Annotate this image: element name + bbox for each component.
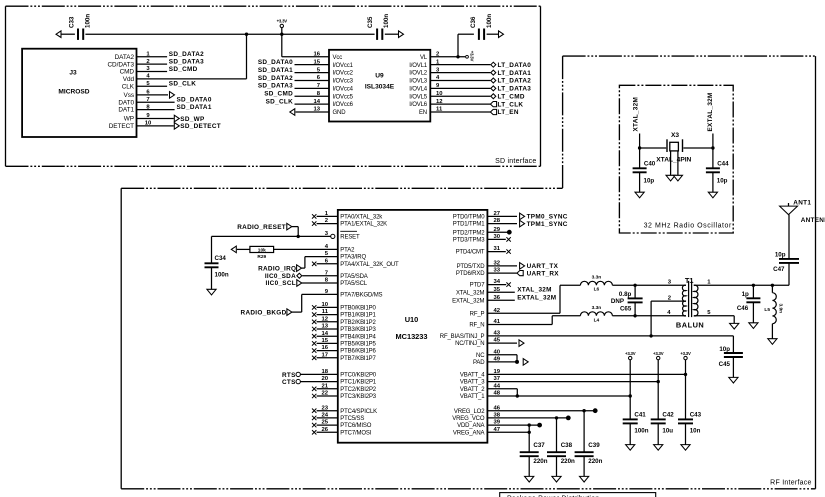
wire pin34 stub [487,284,506,286]
wire U9 LT_DATA0 [430,64,490,66]
svg-text:I/OVL2: I/OVL2 [409,71,428,77]
power symbol +3.3V (C41) [625,351,636,360]
ground below C43 [681,445,690,451]
svg-text:VBATT_2: VBATT_2 [460,387,485,393]
arrow NC/TINJ_N [519,340,524,347]
net label SD_CMD (U9 side) [264,91,293,98]
no-connect X pin30 [506,237,510,241]
svg-text:220n: 220n [533,458,547,465]
svg-text:VREG_ANA: VREG_ANA [453,430,485,436]
junction crystal right [711,146,714,149]
svg-text:SD_WP: SD_WP [180,116,205,123]
svg-text:XTAL_32M: XTAL_32M [456,290,485,296]
wire RADIO_RESET to RESET [292,227,298,237]
no-connect X pin 14 [312,334,316,338]
junction L5 [771,284,774,287]
net label SD_DATA1 (U9 side) [258,67,293,74]
net label SD_DATA2 [169,51,204,58]
svg-text:C44: C44 [717,161,729,168]
net label SD_DETECT [174,123,221,131]
svg-text:MC13233: MC13233 [395,332,427,341]
svg-text:L4: L4 [594,317,600,323]
svg-text:VBATT_1: VBATT_1 [460,394,485,400]
left arrow on +3.3V rail [56,31,61,38]
capacitor C38 220n [547,418,575,477]
ground below L5 [768,339,777,345]
svg-text:DAT1: DAT1 [118,107,134,114]
ground crystal right [673,175,682,181]
svg-text:SD_DATA2: SD_DATA2 [258,75,293,82]
wire RF_N [487,316,580,325]
svg-text:+3.3V: +3.3V [470,51,475,62]
svg-text:PTC2/KBI2P2: PTC2/KBI2P2 [340,387,377,393]
wire J3 pin 3 [137,71,168,73]
capacitor C37 220n [520,425,548,476]
net label LT_EN [490,109,518,116]
svg-text:+3.3V: +3.3V [653,351,664,356]
svg-text:SD_DATA0: SD_DATA0 [258,59,293,66]
svg-text:CLK: CLK [122,83,135,90]
junction C43 [684,373,687,376]
svg-text:I/OVcc2: I/OVcc2 [333,71,354,77]
svg-text:C46: C46 [737,305,749,312]
svg-text:C35: C35 [367,16,374,28]
svg-text:PTC0/KBI2P0: PTC0/KBI2P0 [340,373,377,379]
wire EXTAL_32M stub [683,134,713,149]
no-connect X pin 10 [312,305,316,309]
wire pin30 stub [487,238,505,240]
svg-text:TPM1_SYNC: TPM1_SYNC [527,221,568,228]
no-connect X pin 17 [312,356,316,360]
svg-text:C41: C41 [634,412,646,419]
resistor R29 10k [250,246,274,260]
net label LT_DATA0 [491,62,531,69]
svg-text:RESET: RESET [340,235,360,241]
svg-text:PTA7/BKGD/MS: PTA7/BKGD/MS [340,293,382,299]
no-connect X pin 15 [312,341,316,345]
svg-text:100n: 100n [383,14,390,28]
svg-text:+3.3V: +3.3V [625,351,636,356]
svg-text:PTA3/IRQ: PTA3/IRQ [340,255,366,261]
svg-text:PTB1/KBI1P1: PTB1/KBI1P1 [340,313,376,319]
svg-text:VL: VL [420,55,428,61]
junction C65 top [633,284,636,287]
net label SD_DATA3 [169,59,204,66]
wire U9 LT_CMD [430,95,490,97]
svg-text:I/OVL1: I/OVL1 [409,63,428,69]
svg-text:PTD7: PTD7 [470,283,486,289]
inductor L6 3.3n [580,275,612,293]
junction VREG_ANA at C37 [528,431,531,434]
wire U10 pin 11 (n.c.) [317,314,338,316]
net label TPM1_SYNC [520,220,568,228]
net label UART_RX [517,270,559,277]
wire J3 pin 4 [137,78,247,80]
svg-text:ISL3034E: ISL3034E [365,84,395,91]
svg-text:RADIO_RESET: RADIO_RESET [237,224,286,231]
svg-text:LT_CLK: LT_CLK [498,101,524,108]
svg-text:RF_P: RF_P [470,311,485,317]
svg-text:UART_RX: UART_RX [527,270,560,277]
svg-text:LT_DATA2: LT_DATA2 [498,78,532,85]
no-connect X pin 6 [312,262,316,266]
svg-text:SD_DATA3: SD_DATA3 [169,59,204,66]
net label RADIO_IRQ [258,265,302,273]
wire J3 pin 5 [137,85,168,87]
32 MHz Radio Oscillator boundary box [619,85,733,233]
wire U10 pin 16 (n.c.) [317,350,338,352]
wire U10 pin 26 (n.c.) [317,431,338,433]
svg-text:PTB3/KBI1P3: PTB3/KBI1P3 [340,327,376,333]
svg-text:PTB7/KBI1P7: PTB7/KBI1P7 [340,356,376,362]
svg-text:PTB2/KBI1P2: PTB2/KBI1P2 [340,320,376,326]
svg-text:EN: EN [419,110,427,116]
svg-text:RADIO_IRQ: RADIO_IRQ [258,265,296,272]
svg-text:VREG_VCO: VREG_VCO [452,416,485,422]
no-connect X pin 1 [312,214,316,218]
svg-text:C37: C37 [533,442,545,449]
wire +3.3V to C41 [629,360,631,420]
svg-text:DATA2: DATA2 [115,54,135,61]
svg-text:NC: NC [476,353,485,359]
wire VBATT_4 [487,373,685,375]
capacitor C46 1p [737,285,761,323]
wire TPM0_SYNC [487,215,517,217]
svg-text:C43: C43 [690,412,702,419]
svg-text:I/OVcc1: I/OVcc1 [333,63,354,69]
svg-text:XTAL_4PIN: XTAL_4PIN [656,157,691,164]
connector J3 MICROSD [22,49,152,137]
capacitor C47 10p [773,251,799,273]
right arrow after C36 [499,31,504,38]
svg-text:LT_CMD: LT_CMD [498,93,525,100]
svg-text:EXTAL_32M: EXTAL_32M [707,92,714,131]
wire U9 SD_DATA0 [295,64,330,66]
svg-text:SD_DATA1: SD_DATA1 [258,67,293,74]
svg-text:T1: T1 [685,276,694,285]
svg-text:SD_CMD: SD_CMD [169,66,198,73]
wire balun pin5 to ground [694,316,734,324]
wire J3 pin 8 [137,109,175,111]
svg-text:CD/DAT3: CD/DAT3 [107,61,134,68]
net label TPM0_SYNC [520,213,568,221]
svg-text:SD_DATA2: SD_DATA2 [169,51,204,58]
svg-text:TPM0_SYNC: TPM0_SYNC [527,214,568,221]
svg-text:CTS: CTS [282,379,296,386]
svg-text:MICROSD: MICROSD [58,89,89,96]
output arrow on J3 Vss [170,92,175,99]
terminal dot pin29 [507,230,512,235]
wire U9 GND [296,111,330,113]
svg-text:SD_DATA1: SD_DATA1 [177,104,212,111]
svg-text:IIC0_SDA: IIC0_SDA [265,273,296,280]
wire IIC0_SDA [302,275,338,277]
wire +3.3V to C42 [657,360,659,420]
wire U10 pin 22 (n.c.) [317,395,338,397]
no-connect X pin 21 [312,387,316,391]
junction C42 [657,380,660,383]
wire L4 to balun pin4 [612,315,686,317]
net label EXTAL_32M (oscillator) [707,92,714,131]
ground below C39 [580,476,589,482]
wire J3 pin 10 [137,125,174,127]
svg-text:RTS: RTS [282,372,296,379]
junction at U9 Vcc riser [280,33,283,36]
svg-text:ANTENNA: ANTENNA [801,217,825,224]
svg-text:C45: C45 [719,361,731,368]
junction on RESET net [297,235,300,238]
svg-text:Vdd: Vdd [123,76,135,83]
crystal X3 XTAL_4PIN [656,132,691,164]
svg-text:PTB4/KBI1P4: PTB4/KBI1P4 [340,334,376,340]
ground below C37 [525,476,534,482]
svg-text:PTB5/KBI1P5: PTB5/KBI1P5 [340,342,376,348]
svg-text:C36: C36 [470,16,477,28]
power symbol +3.3V (C42) [653,351,664,360]
svg-text:PTA4/XTAL_32K_OUT: PTA4/XTAL_32K_OUT [340,262,399,268]
wire U10 pin 12 (n.c.) [317,321,338,323]
svg-text:1p: 1p [742,291,749,298]
wire pin35 stub [487,291,514,293]
svg-text:EXTAL_32M: EXTAL_32M [517,294,556,301]
svg-text:C34: C34 [215,255,227,262]
net label SD_DATA1 (J3 side) [177,104,212,111]
svg-text:PTD2/TPM2: PTD2/TPM2 [453,230,485,236]
net label LT_DATA1 [491,70,531,77]
capacitor C44 10p [706,148,729,192]
svg-text:SD_CLK: SD_CLK [169,81,196,88]
wire U9 LT_DATA2 [430,79,490,81]
wire pin31 stub [487,251,505,253]
svg-text:I/OVcc6: I/OVcc6 [333,102,354,108]
wire U9 Vcc riser [282,34,329,57]
wire C36 to arrow [487,33,498,35]
inductor L5 3.9n [764,285,783,338]
capacitor C42 10u [651,412,675,445]
antenna ANT1 [780,200,825,259]
svg-text:L6: L6 [594,287,600,293]
net label SD_CLK (U9 side) [266,98,293,105]
junction VDD_ANA at C37 [528,423,531,426]
ground below C38 [552,476,561,482]
wire U10 pin 21 (n.c.) [317,388,338,390]
svg-text:Vss: Vss [123,92,134,99]
no-connect X pin34 [506,282,510,286]
wire VBATT_3 [487,381,658,383]
wire balun pin1 net [694,263,789,285]
ground below C44 [708,192,717,198]
svg-text:SD_DATA0: SD_DATA0 [177,97,212,104]
svg-text:+3.3V: +3.3V [277,19,288,24]
no-connect X pin 23 [312,409,316,413]
terminal dot VDD_ANA [537,423,542,428]
no-connect X pin 12 [312,320,316,324]
svg-text:LT_DATA3: LT_DATA3 [498,86,532,93]
svg-text:32 MHz Radio Oscillator: 32 MHz Radio Oscillator [644,222,732,229]
level shifter U9 ISL3034E [313,50,443,122]
inductor L4 3.3n [580,305,612,323]
svg-text:PTB6/KBI1P6: PTB6/KBI1P6 [340,349,376,355]
svg-text:PTD0/TPM0: PTD0/TPM0 [453,215,485,221]
transformer T1 BALUN [667,276,711,330]
net label IIC0_SCL [266,280,302,288]
ground below C45 [729,377,738,383]
wire U9 SD_DATA1 [295,72,330,74]
svg-text:SD_CLK: SD_CLK [266,98,293,105]
svg-text:DETECT: DETECT [109,123,134,130]
wire U10 pin 2 (n.c.) [317,223,338,225]
capacitor C41 100n [623,412,649,445]
svg-text:X3: X3 [671,132,679,139]
wire VREG_ANA [487,431,529,433]
net label LT_DATA3 [491,86,531,93]
power symbol +3.3V (U9 VL) [466,51,475,62]
svg-text:UART_TX: UART_TX [527,263,559,270]
svg-text:PTA5/SDA: PTA5/SDA [340,274,368,280]
wire CTS [300,381,337,383]
junction C65 bottom [633,314,636,317]
junction C46 [752,284,755,287]
ground crystal left [666,175,675,181]
svg-text:R29: R29 [257,254,266,260]
wire C35 to arrow [385,33,398,35]
svg-text:I/OVL6: I/OVL6 [409,102,428,108]
svg-text:SD_CMD: SD_CMD [264,91,293,98]
junction at U9 VL [456,55,459,58]
wire U9 SD_CMD [295,95,330,97]
svg-text:I/OVcc3: I/OVcc3 [333,79,354,85]
power symbol +3.3V (rail) [277,19,288,35]
RF interface boundary (L-shaped dash-dot border) [121,56,815,489]
wire U9 LT_DATA1 [430,72,490,74]
capacitor C43 10n [678,412,702,445]
net label SD_DATA2 (U9 side) [258,75,293,82]
wire U10 pin 17 (n.c.) [317,357,338,359]
svg-text:L5: L5 [764,307,770,313]
left arrow at R29 [231,246,236,253]
net label SD_DATA0 (J3 side) [177,97,212,104]
wire U10 pin 6 (n.c.) [317,263,338,265]
svg-text:PTC3/KBI2P3: PTC3/KBI2P3 [340,394,377,400]
svg-text:WP: WP [124,116,134,123]
wire XTAL_32M stub [640,134,667,149]
svg-text:I/OVL3: I/OVL3 [409,79,428,85]
wire RADIO_BKGD to PTA7 [292,294,338,312]
svg-text:SD_DETECT: SD_DETECT [180,123,221,130]
svg-text:PTD1/TPM1: PTD1/TPM1 [453,222,485,228]
net label CTS [282,379,300,386]
wire J3 Vdd to rail [246,34,248,79]
net label SD_CMD [169,66,198,73]
svg-text:PTD5/TXD: PTD5/TXD [457,264,486,270]
svg-text:C33: C33 [69,16,76,28]
junction at PAD [515,360,519,364]
svg-text:BALUN: BALUN [676,320,704,329]
svg-text:100n: 100n [634,428,648,435]
svg-text:100n: 100n [486,14,493,28]
wire R29 left to arrow [237,248,250,250]
svg-text:PTC1/KBI2P1: PTC1/KBI2P1 [340,380,377,386]
no-connect X pin 24 [312,416,316,420]
capacitor C45 10p [719,336,743,378]
junction VREG_VCO at C38 [555,416,558,419]
no-connect X pin 11 [312,312,316,316]
ground below C34 [207,289,216,295]
net label RADIO_BKGD [241,309,292,317]
wire J3 pin 6 [137,94,169,96]
wire UART_RX [487,272,517,274]
no-connect X pin31 [506,249,510,253]
wire VBATT_2 [487,389,517,396]
svg-text:VBATT_4: VBATT_4 [460,373,485,379]
svg-text:PTA5/SCL: PTA5/SCL [340,281,368,287]
ground below C42 [654,445,663,451]
wire J3 pin 2 [137,63,168,65]
svg-text:C47: C47 [773,266,785,273]
svg-text:IIC0_SCL: IIC0_SCL [266,280,296,287]
svg-text:220n: 220n [588,458,602,465]
wire balun pin2 tap [651,301,686,336]
wire NC and PAD stubs [487,355,517,362]
ground at balun pin5 [730,323,739,329]
net label LT_CMD [491,93,525,100]
right arrow after C35 [399,31,404,38]
ground below C40 [635,192,644,198]
svg-text:100n: 100n [85,14,92,28]
svg-text:J3: J3 [69,70,77,77]
svg-text:PTD3/TPM3: PTD3/TPM3 [453,238,485,244]
wire VREG_VCO [487,417,566,419]
wire U10 pin 24 (n.c.) [317,417,338,419]
svg-text:VBATT_3: VBATT_3 [460,380,485,386]
junction VBATT_2/VBATT_1 [516,394,519,397]
wire RF_P [487,285,580,313]
svg-text:RF Interface: RF Interface [770,479,812,486]
svg-text:RADIO_BKGD: RADIO_BKGD [241,309,287,316]
wire +3.3V to C43 [685,360,687,420]
no-connect X pin 16 [312,348,316,352]
svg-text:C40: C40 [644,161,656,168]
microcontroller U10 MC13233 [321,210,500,443]
wire IIC0_SCL [302,282,338,284]
net label RADIO_RESET [237,223,292,231]
wire U10 pin 14 (n.c.) [317,335,338,337]
svg-text:+3.3V: +3.3V [680,351,691,356]
wire NC/TINJ_N stub [487,342,517,344]
SD interface boundary box [6,6,541,166]
wire R29 to U10 PTA2 [274,248,338,250]
power distribution box (clipped at bottom edge) [500,493,656,497]
wire crystal ground stubs [671,151,678,176]
wire J3 pin 9 [137,118,174,120]
svg-text:PTD4/CMT: PTD4/CMT [456,250,485,256]
capacitor C39 220n [575,411,603,477]
net label SD_CLK [169,81,196,88]
arrow at PAD [523,359,528,366]
svg-text:XTAL_32M: XTAL_32M [632,97,639,132]
no-connect X pin 22 [312,394,316,398]
wire U9 SD_CLK [295,103,330,105]
wire U10 pin 25 (n.c.) [317,424,338,426]
wire TPM1_SYNC [487,223,517,225]
wire U9 SD_DATA2 [295,79,330,81]
capacitor C40 10p [633,148,656,192]
junction at J3 Vdd riser [245,33,248,36]
svg-text:10p: 10p [717,177,728,184]
svg-text:C42: C42 [662,412,674,419]
net label SD_DATA3 (U9 side) [258,83,293,90]
svg-text:10u: 10u [662,428,673,435]
